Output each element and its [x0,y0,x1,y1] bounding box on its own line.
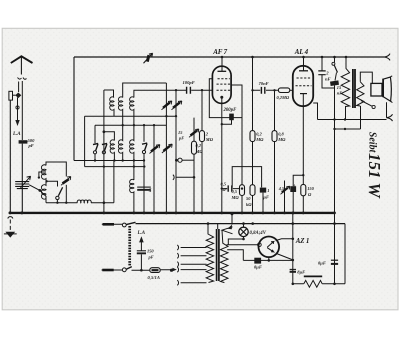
top bus wire [74,56,384,58]
svg-text:MΩ: MΩ [277,137,286,142]
svg-text:0,5: 0,5 [221,182,227,187]
svg-text:0,2MΩ: 0,2MΩ [277,95,290,100]
fuse 0,5/1A pill [150,268,160,273]
wire H7 [335,106,361,129]
AF7 top cap wire [221,57,223,71]
trimmer C-L1 [63,179,69,183]
junction dots top bus [221,56,348,59]
svg-text:4,5: 4,5 [278,186,285,191]
heater winding [220,230,228,282]
bus2 wire [136,223,346,225]
svg-text:1: 1 [267,188,269,193]
svg-text:0,2: 0,2 [196,143,202,148]
svg-text:5: 5 [149,188,152,194]
coil L5b [130,125,134,160]
trimmer C row2-a [153,125,155,213]
AZ1 anode wire [276,239,293,241]
output transformer primary [341,57,349,120]
antenna symbol [11,56,33,63]
power transformer core [217,229,219,281]
antenna column lower [21,144,23,213]
capacitor +4uF [290,186,296,192]
resistor 2M column [201,90,203,213]
L.A mains antenna arrow [140,240,142,251]
transformer tap socket 4 [177,267,206,272]
AL4 grid dashes [297,77,312,79]
variable capacitor C1 [15,182,29,189]
svg-text:0,8A;4V: 0,8A;4V [250,231,267,236]
coil L3b [110,140,114,161]
grid leak column [193,118,195,213]
svg-text:pF: pF [28,143,34,148]
capacitor 8uF-b [331,259,338,261]
transformer tap socket 5 [177,280,206,285]
resistor 50k pillB [250,185,255,196]
svg-text:Seibt: Seibt [366,132,377,154]
speaker bottom wire [386,102,388,118]
trimmer 4,5 [284,181,286,214]
bottom bus [293,224,345,284]
rectifier AZ1 [259,237,280,258]
resistor 0,2M pill2 [250,131,255,142]
svg-text:pF: pF [178,136,184,141]
coil L3a bracket [104,90,114,98]
AL4 side wire [313,103,317,120]
wire H2 [95,124,166,126]
ground bus [10,212,335,214]
trimmer 15pF [191,131,198,136]
wire L6 to coil column [91,161,114,203]
switch S1 [94,125,96,143]
wire H1 left leg [84,116,86,166]
svg-text:8μF: 8μF [318,260,326,265]
phono terminal [178,158,182,162]
switch S2 [102,143,107,150]
wire C1 to coil node [29,185,46,201]
AF7 cathode [220,96,223,99]
transformer tap socket 1 [177,245,206,250]
svg-text:AF 7: AF 7 [212,48,227,56]
AZ1 cathode drop [268,257,270,260]
resistor 0,2M pill [192,141,197,154]
transformer tap socket 3 [177,262,206,267]
svg-text:151 W: 151 W [365,153,384,199]
wire H4 [85,166,145,168]
svg-text:0,8: 0,8 [278,132,284,137]
svg-text:MΩ: MΩ [231,195,240,200]
coil L5c column [133,161,135,181]
AF7 anode bar [218,70,227,72]
svg-text:100pF: 100pF [183,80,195,85]
capacitor 15nF [330,80,339,86]
capacitor 200pF [222,118,232,125]
branch to switch S4 [47,181,58,186]
svg-text:MΩ: MΩ [195,149,204,154]
svg-text:μF: μF [263,195,269,200]
svg-text:150: 150 [307,186,314,191]
output transformer secondary [357,82,364,106]
filter line [243,259,292,261]
mains switch upper [102,223,123,225]
wire H1 [85,115,176,117]
wire H3 [74,160,144,162]
capacitor 150pF [137,250,146,252]
wire to +4uF [293,175,303,186]
dropper slider bar [304,275,322,277]
wire H2b [104,132,115,141]
coil L4b [118,125,122,160]
svg-text:MΩ: MΩ [255,137,264,142]
capacitor 8uF-a [254,258,261,264]
tube AL4 envelope [293,66,313,106]
svg-text:70nF: 70nF [259,81,269,86]
AL4 cathode [300,93,307,95]
svg-text:AL 4: AL 4 [294,48,309,56]
screen wire with 70nF [253,89,279,91]
svg-text:L.A: L.A [12,132,21,137]
switch S4 [58,187,62,196]
grid wire to AF7 [134,89,213,91]
speaker bottom connector fork [387,114,393,121]
earth dashed lead [9,220,11,232]
svg-text:nF: nF [325,77,331,82]
junction dots bus1 [9,211,336,214]
svg-text:150: 150 [147,249,154,254]
capacitor 8uF-c [290,268,296,270]
horizontal coil L6 [77,200,91,203]
resistor 0,2M horizontal [278,88,289,93]
core ground wire [218,214,232,229]
capacitor 100pF [187,87,191,94]
earth terminal hook [8,217,13,219]
lower left coil L1 [46,162,66,177]
capacitor 0,5uF plates [228,185,232,191]
svg-text:μF: μF [221,187,227,192]
trimmer C row1-b column [175,90,177,213]
antenna lead wire [20,56,22,74]
heater winding top coupler [222,227,233,234]
power transformer primary winding [206,224,213,283]
speaker magnet lead [361,101,372,107]
switch S3 on column 144 [143,125,145,213]
mechanical link bar [128,226,131,267]
AL4 top wire [303,57,305,71]
capacitor 500pF [19,140,28,143]
svg-text:pF: pF [148,254,154,259]
tube AF7 envelope [212,66,231,103]
junction dots misc [56,89,346,285]
wire bottom-left coil line [46,202,77,204]
cathode bypass wire [222,188,242,190]
AZ1 output wire [277,254,293,260]
coil L4a bracket [123,83,167,98]
socket box A [9,91,13,100]
svg-text:+: + [293,183,296,189]
arrow down L.A [15,120,19,126]
heater chevron input [173,175,194,180]
svg-text:nF: nF [337,91,342,96]
box left edge wire [73,57,75,161]
svg-text:0,5/1A: 0,5/1A [148,275,160,280]
svg-text:8μF: 8μF [254,264,262,269]
pilot lamp [239,227,248,236]
coil L5a bracket [133,90,135,97]
capacitor 2nF [322,57,335,88]
fuse line [132,269,175,271]
AF7 anode box [209,79,242,118]
switch S2 column [103,90,105,213]
switch S5 column [334,57,336,62]
svg-text:8μF: 8μF [297,269,305,274]
svg-text:AZ 1: AZ 1 [295,237,309,245]
junction blob antenna [15,93,21,99]
capacitor 70nF [261,87,264,94]
transformer tap socket 2 [177,253,206,258]
svg-text:kΩ: kΩ [246,202,252,207]
svg-text:0,2: 0,2 [256,132,262,137]
resistor 2M pill [200,131,205,142]
resistor pill2 column [252,57,254,213]
svg-text:0,5: 0,5 [232,189,238,194]
speaker top connector fork [384,54,390,61]
capacitor 1uF [260,188,266,193]
trimmer C-ant on top bus [147,55,149,62]
resistor 150ohm pill [301,184,306,195]
AF7 grid dashes [218,78,230,80]
L.A tap wire with circle [17,98,19,122]
lamp bottom wire [228,239,243,245]
capacitor 5nF [137,186,151,188]
svg-text:MΩ: MΩ [205,137,214,142]
resistor 0,8M column [274,90,276,213]
L1 tap stub [39,172,46,176]
coil L5c [130,179,134,213]
coil L3a [110,97,114,116]
resistor pill A column [241,118,243,213]
output transformer core [353,69,355,108]
left earth column [9,100,11,213]
AZ1 heater wire [227,244,258,246]
wire to socket [13,94,16,96]
svg-text:L.A: L.A [137,231,146,236]
wire antenna split [19,81,23,140]
svg-text:200pF: 200pF [223,108,238,113]
trimmer C row1-a on col 166 [163,103,170,108]
HT column [292,213,294,284]
coil L4a [118,97,122,125]
coil L5a [130,97,134,125]
trimmer C row2-b [165,83,167,213]
antenna coupling hook [18,78,27,80]
resistor mains dropper zigzag [304,280,322,287]
speaker [371,83,382,96]
ground symbol [5,232,15,238]
wire H6 speaker line [318,119,387,121]
mains switch lower [102,269,123,271]
wire H5 loop [232,167,261,188]
AL4 anode bar [299,70,308,72]
lower left coil L2 [41,181,46,202]
